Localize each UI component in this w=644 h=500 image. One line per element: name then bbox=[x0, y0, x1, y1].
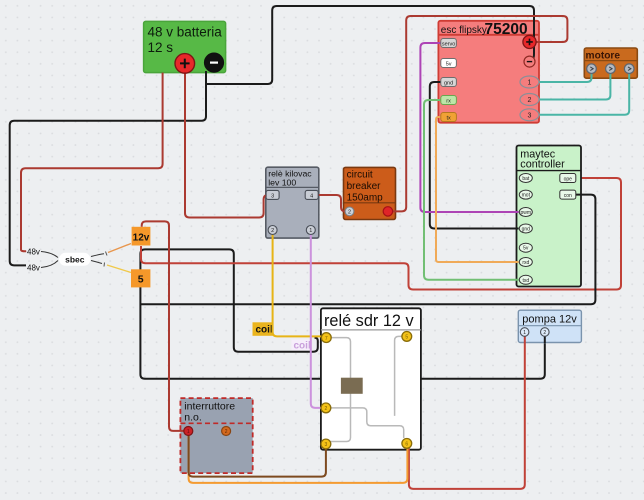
relay internal conductor pin2 to pin6 bbox=[326, 408, 404, 438]
interruttore n.o. box bbox=[180, 398, 252, 473]
breaker input terminal 2 bbox=[345, 207, 354, 216]
coil label purple bbox=[292, 339, 312, 351]
wire black: esc gnd to maytec gnd bbox=[430, 82, 519, 229]
relay pin 6 bottom-right bbox=[402, 439, 412, 449]
esc phase pin 3 bbox=[520, 109, 539, 121]
sbec label pill bbox=[59, 253, 91, 266]
maytec rxd pin bbox=[519, 258, 532, 267]
svg-text:txd: txd bbox=[522, 278, 529, 284]
svg-text:coil: coil bbox=[294, 340, 311, 351]
motore terminal 2 bbox=[606, 64, 616, 74]
svg-text:5: 5 bbox=[405, 335, 408, 341]
svg-text:mot: mot bbox=[522, 193, 531, 199]
svg-text:rxd: rxd bbox=[522, 260, 529, 266]
motore terminal 1 bbox=[587, 64, 597, 74]
maytec gnd pin bbox=[519, 224, 532, 233]
pompa pin 2 bbox=[541, 328, 550, 337]
maytec 5v pin bbox=[519, 243, 532, 252]
svg-text:2: 2 bbox=[528, 97, 532, 104]
svg-text:pwm: pwm bbox=[521, 210, 532, 216]
svg-text:48 v batteria: 48 v batteria bbox=[148, 24, 223, 39]
relay internal conductor pin7 to pin3 bbox=[326, 338, 351, 442]
relay pin 5 top-right bbox=[402, 332, 412, 342]
coil label yellow bbox=[253, 322, 274, 336]
svg-text:motore: motore bbox=[586, 51, 621, 62]
svg-text:lev 100: lev 100 bbox=[268, 177, 296, 187]
wire teal: esc phase 1 to motore bbox=[539, 73, 592, 83]
svg-text:pompa 12v: pompa 12v bbox=[522, 313, 577, 325]
relay pin 2 mid-left bbox=[321, 403, 331, 413]
kilovac pin 2 bbox=[268, 226, 277, 235]
svg-text:gnd: gnd bbox=[444, 81, 453, 87]
wire black stub: pompa pin2 into box bbox=[544, 336, 546, 343]
relay internal open contact from pin5 bbox=[395, 336, 407, 416]
wire dark red: breaker output loop over the top to esc plus bbox=[392, 16, 567, 211]
wire black: maytec con / sbec minus net routed behind relay (5v box vertical, to relay pin7 and pompa pin2) bbox=[140, 249, 544, 378]
kilovac pin 3 bbox=[266, 190, 279, 199]
breaker output terminal bbox=[383, 207, 392, 216]
svg-text:150amp: 150amp bbox=[347, 193, 384, 204]
svg-text:tx: tx bbox=[446, 116, 451, 122]
maytec mot pin bbox=[519, 190, 532, 199]
esc phase pin 2 bbox=[520, 94, 539, 106]
circuit breaker 150amp box bbox=[344, 167, 396, 219]
svg-text:75200: 75200 bbox=[485, 21, 528, 38]
wire dark red: battery plus side to sbec 48v input bbox=[21, 73, 163, 252]
maytec con pin bbox=[560, 190, 576, 199]
motore terminal 3 bbox=[624, 64, 634, 74]
svg-text:2: 2 bbox=[543, 330, 546, 336]
battery minus terminal bbox=[204, 53, 223, 72]
svg-text:controller: controller bbox=[520, 159, 565, 171]
svg-text:3: 3 bbox=[528, 112, 532, 119]
esc flipsky 75200 box bbox=[438, 21, 539, 123]
maytec pwm pin bbox=[519, 208, 532, 217]
svg-text:48v: 48v bbox=[27, 263, 40, 272]
svg-text:7: 7 bbox=[325, 336, 328, 342]
sbec input connector curves bbox=[41, 252, 58, 268]
pompa 12v box bbox=[518, 310, 581, 342]
svg-text:2: 2 bbox=[225, 429, 228, 435]
svg-text:bat: bat bbox=[522, 176, 530, 182]
wire yellow: kilovac pin2 to relay pin7 bbox=[273, 233, 321, 336]
wire dark red: battery plus to kilovac pin3 bbox=[185, 71, 270, 218]
svg-text:4: 4 bbox=[310, 193, 313, 199]
svg-text:gnd: gnd bbox=[522, 227, 531, 233]
wire orange: esc tx to maytec rxd bbox=[436, 117, 519, 262]
svg-text:circuit: circuit bbox=[347, 169, 373, 180]
svg-text:6: 6 bbox=[405, 442, 408, 448]
pompa pin 1 bbox=[520, 328, 529, 337]
svg-text:5v: 5v bbox=[446, 62, 452, 68]
wire green: esc rx to maytec txd bbox=[424, 100, 519, 280]
relay pin 3 bottom-left bbox=[321, 439, 331, 449]
svg-text:1: 1 bbox=[187, 429, 190, 435]
wire brown: interruttore pin1 to relay pin3 bbox=[189, 433, 326, 477]
interruttore pin 2 bbox=[222, 427, 231, 436]
wire red: relay pin6 to pompa pin1 bbox=[409, 336, 525, 489]
wire orange: interruttore pin1 to relay pin6 bbox=[189, 433, 408, 483]
wire dark red: kilovac pin4 to breaker input bbox=[318, 195, 346, 211]
svg-text:2: 2 bbox=[271, 228, 274, 234]
svg-text:rx: rx bbox=[446, 99, 451, 105]
esc gnd pin bbox=[441, 78, 457, 87]
maytec bat pin bbox=[519, 174, 532, 183]
svg-text:3: 3 bbox=[271, 193, 274, 199]
esc tx pin bbox=[441, 113, 457, 122]
esc 5v pin bbox=[441, 59, 457, 68]
wire teal: esc phase 3 to motore bbox=[539, 73, 629, 115]
esc minus terminal bbox=[524, 56, 535, 67]
wire dark red: 12v box up over and down to interruttore pin1 bbox=[142, 221, 184, 431]
kilovac pin 4 bbox=[305, 190, 318, 199]
sbec to 12v connector bbox=[91, 254, 104, 257]
relay coil rectangle bbox=[341, 378, 363, 394]
esc servo pin bbox=[441, 39, 457, 48]
svg-text:n.o.: n.o. bbox=[184, 411, 202, 423]
motore box bbox=[584, 48, 637, 78]
svg-text:1: 1 bbox=[523, 330, 526, 336]
5v sbec output box bbox=[131, 269, 150, 287]
wire red: 12v supply rail to maytec ope bbox=[141, 178, 621, 290]
rele kilovac lev 100 box bbox=[266, 167, 319, 238]
svg-text:48v: 48v bbox=[27, 248, 40, 257]
esc phase pin 1 bbox=[520, 76, 539, 88]
esc plus terminal bbox=[523, 35, 536, 48]
svg-text:sbec: sbec bbox=[65, 254, 85, 264]
svg-text:1: 1 bbox=[528, 80, 532, 87]
maytec controller box bbox=[517, 146, 582, 287]
wire black: battery minus branch over the top to esc minus bbox=[206, 6, 534, 84]
relay SDR 12v box bbox=[321, 308, 421, 449]
svg-text:12v: 12v bbox=[133, 233, 150, 244]
svg-text:2: 2 bbox=[348, 210, 351, 216]
interruttore pin 1 bbox=[184, 427, 193, 436]
svg-text:servo: servo bbox=[442, 42, 455, 48]
svg-text:ope: ope bbox=[564, 177, 573, 183]
kilovac pin 1 bbox=[306, 226, 315, 235]
wire black: battery minus down-left to sbec 48v input bbox=[10, 71, 206, 265]
svg-text:12 s: 12 s bbox=[148, 40, 174, 55]
svg-text:relé sdr 12 v: relé sdr 12 v bbox=[324, 312, 414, 330]
wire purple: kilovac pin1 to relay pin2 bbox=[311, 233, 321, 408]
wire teal: esc phase 2 to motore bbox=[539, 73, 610, 100]
sbec to 5v connector bbox=[91, 261, 102, 264]
battery plus terminal bbox=[175, 54, 195, 74]
svg-text:1: 1 bbox=[309, 228, 312, 234]
12v sbec output box bbox=[132, 227, 151, 246]
esc rx pin bbox=[441, 96, 457, 105]
svg-text:5: 5 bbox=[138, 274, 144, 286]
maytec ope pin bbox=[560, 174, 576, 183]
svg-text:con: con bbox=[564, 193, 572, 199]
svg-text:esc flipsky: esc flipsky bbox=[441, 25, 487, 36]
wire black: maytec con down and left along y304 to junction bbox=[140, 195, 595, 305]
relay pin 7 top-left bbox=[321, 333, 331, 343]
svg-text:breaker: breaker bbox=[347, 181, 382, 192]
svg-text:5v: 5v bbox=[523, 246, 529, 252]
svg-text:2: 2 bbox=[325, 406, 328, 412]
battery 48v box bbox=[144, 21, 226, 72]
maytec txd pin bbox=[519, 275, 532, 284]
svg-text:3: 3 bbox=[325, 442, 328, 448]
svg-text:coil: coil bbox=[256, 325, 273, 336]
wire magenta: esc servo to maytec pwm bbox=[420, 43, 518, 212]
